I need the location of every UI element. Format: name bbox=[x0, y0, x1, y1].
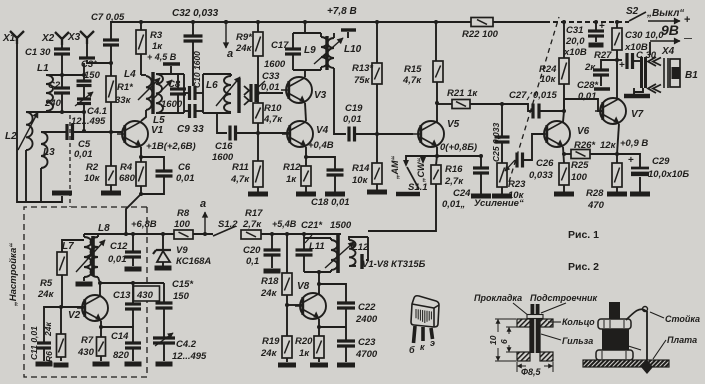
svg-text:L10: L10 bbox=[344, 44, 362, 55]
svg-text:6: 6 bbox=[499, 339, 509, 344]
svg-text:150: 150 bbox=[84, 70, 101, 81]
ground R28 bbox=[607, 192, 627, 197]
svg-text:Рис. 1: Рис. 1 bbox=[568, 229, 599, 241]
wire C19 junction to V5 base bbox=[377, 133, 413, 135]
circuit board (plata) hatched bbox=[583, 360, 669, 367]
capacitor C23 4700 bbox=[345, 327, 347, 340]
svg-text:C6: C6 bbox=[178, 162, 191, 173]
svg-text:10: 10 bbox=[488, 335, 498, 345]
wire V6 collector bbox=[563, 111, 564, 122]
wire L10 to C19 bbox=[334, 68, 346, 134]
transistor KT315 package drawing bbox=[411, 296, 439, 327]
svg-text:4,7к: 4,7к bbox=[230, 174, 250, 185]
arrow battery plus 9V bbox=[648, 18, 680, 24]
svg-text:1600: 1600 bbox=[264, 59, 286, 70]
svg-text:1500: 1500 bbox=[330, 220, 352, 231]
svg-text:R25: R25 bbox=[571, 160, 589, 171]
svg-text:V9: V9 bbox=[176, 245, 188, 256]
ground C18 bbox=[325, 192, 345, 197]
resistor R13* 75k bbox=[376, 22, 378, 63]
wire input tank bottom bbox=[26, 111, 84, 113]
capacitor C24 0,01 Usilenie bbox=[480, 156, 482, 167]
svg-text:Прокладка: Прокладка bbox=[474, 293, 522, 303]
svg-text:0,01„: 0,01„ bbox=[442, 199, 465, 210]
resistor R11 4,7k bbox=[257, 133, 259, 161]
svg-text:a: a bbox=[200, 198, 206, 210]
svg-text:C16: C16 bbox=[215, 141, 233, 152]
svg-text:э: э bbox=[430, 338, 435, 348]
antenna X3 bbox=[80, 31, 94, 44]
dashed board outline Nastroyka block bbox=[24, 207, 147, 377]
solder arrow into coil bbox=[622, 344, 641, 350]
capacitor C12 0,01 rail bypass bbox=[132, 234, 134, 251]
capacitor C31 20,0x10V bbox=[595, 22, 597, 30]
svg-text:х10В: х10В bbox=[563, 47, 587, 58]
coil bottom flange bbox=[596, 350, 633, 360]
svg-text:X1.: X1. bbox=[2, 33, 18, 44]
resistor R19 24k bbox=[286, 305, 288, 336]
wire dashed supply bus to S2 bbox=[545, 21, 629, 23]
solder blob under stand bbox=[641, 360, 653, 374]
svg-text:150: 150 bbox=[173, 291, 190, 302]
svg-text:С18 0,01: С18 0,01 bbox=[311, 197, 350, 208]
resistor R17 2,7k bbox=[241, 230, 261, 239]
wire V2 base bbox=[61, 306, 84, 308]
wire V1 emitter to R4 bbox=[140, 147, 142, 162]
svg-text:0,015: 0,015 bbox=[533, 90, 557, 101]
svg-text:V4: V4 bbox=[316, 125, 329, 136]
resistor R26* 12k feedback bbox=[571, 150, 590, 159]
svg-text:0,01: 0,01 bbox=[261, 82, 280, 93]
transformer L8 left winding bbox=[84, 237, 92, 277]
ground R11 bbox=[248, 192, 268, 197]
svg-text:2,7к: 2,7к bbox=[242, 219, 262, 230]
trimmer core T-bar above tank 1 bbox=[163, 62, 180, 65]
wire C33-V3 base bbox=[258, 92, 283, 94]
svg-text:C22: C22 bbox=[358, 302, 376, 313]
node L11 bottom junction bbox=[317, 270, 321, 274]
svg-text:100: 100 bbox=[174, 219, 191, 230]
svg-text:С31: С31 bbox=[566, 25, 583, 36]
svg-text:S2: S2 bbox=[626, 6, 639, 17]
svg-text:R11: R11 bbox=[232, 162, 249, 173]
svg-text:L7: L7 bbox=[62, 241, 74, 252]
wire C1 to input tank top bbox=[61, 54, 63, 75]
svg-text:R5: R5 bbox=[40, 278, 53, 289]
svg-text:X2: X2 bbox=[41, 33, 55, 44]
svg-text:L1: L1 bbox=[37, 63, 49, 74]
svg-text:2,7к: 2,7к bbox=[444, 176, 464, 187]
gasket washer bbox=[527, 315, 543, 319]
svg-text:C2: C2 bbox=[48, 80, 61, 91]
core bar L6 bbox=[237, 78, 240, 113]
svg-text:В1: В1 bbox=[685, 70, 698, 81]
switch S1.2 bbox=[213, 226, 236, 236]
capacitor C33 0,01 to V3 base bbox=[251, 84, 256, 102]
svg-text:C27: C27 bbox=[509, 90, 527, 101]
svg-text:+5,4В: +5,4В bbox=[272, 219, 297, 229]
svg-text:V1-V8 КТ315Б: V1-V8 КТ315Б bbox=[362, 259, 426, 270]
gimmick coupling chevrons bbox=[244, 86, 249, 105]
arrow battery minus bbox=[649, 42, 651, 48]
capacitor C16 1600 bbox=[217, 113, 227, 133]
svg-text:0,01: 0,01 bbox=[108, 254, 127, 265]
svg-text:V8: V8 bbox=[297, 281, 310, 292]
core bar L7/L8 bbox=[91, 236, 95, 276]
node rail junctions bbox=[124, 232, 128, 236]
node tank top/bottom junctions bbox=[60, 73, 64, 77]
svg-text:C13: C13 bbox=[113, 290, 131, 301]
signal arrow a from bus bbox=[224, 20, 228, 24]
svg-text:24к: 24к bbox=[43, 322, 53, 337]
stand (stoyka) wire bbox=[646, 311, 648, 361]
ground R19 bbox=[278, 363, 296, 368]
antenna X2 bbox=[55, 32, 69, 45]
svg-text:Стойка: Стойка bbox=[665, 314, 700, 324]
wire R21 node to C27 bbox=[502, 104, 532, 111]
tuning arrow across L6 bbox=[216, 77, 240, 106]
svg-text:+0,9 В: +0,9 В bbox=[620, 138, 648, 149]
svg-text:10к: 10к bbox=[352, 175, 369, 186]
dimension 10 bbox=[495, 318, 516, 320]
node V2 collector to tank bbox=[98, 281, 102, 285]
svg-text:R18: R18 bbox=[261, 276, 279, 287]
svg-text:Гильза: Гильза bbox=[562, 336, 593, 346]
wire jack bottom to ground bbox=[634, 88, 643, 92]
variable capacitor C4.2 12...495 bbox=[153, 338, 175, 343]
svg-text:КС168А: КС168А bbox=[176, 256, 211, 267]
ground C28 bbox=[594, 87, 610, 91]
capacitor C9 33 bottom coupling bbox=[190, 104, 196, 118]
ground R12 bbox=[296, 192, 316, 197]
wire +7,8V top supply bus bbox=[110, 21, 545, 23]
node rail junctions right bbox=[270, 232, 274, 236]
svg-text:0,033: 0,033 bbox=[529, 170, 553, 181]
svg-text:C32 0,033: C32 0,033 bbox=[172, 8, 219, 19]
svg-text:L5: L5 bbox=[153, 115, 165, 126]
svg-text:4,7к: 4,7к bbox=[402, 75, 422, 86]
coil top flange bbox=[598, 319, 631, 329]
svg-text:L4: L4 bbox=[124, 69, 136, 80]
svg-text:R8: R8 bbox=[177, 208, 190, 219]
svg-text:12к: 12к bbox=[600, 140, 617, 151]
svg-text:C9 33: C9 33 bbox=[177, 124, 204, 135]
svg-text:C26: C26 bbox=[536, 158, 554, 169]
node a junction on rail bbox=[203, 232, 207, 236]
svg-text:Плата: Плата bbox=[667, 335, 697, 345]
svg-text:0(+0,8Б): 0(+0,8Б) bbox=[440, 142, 477, 153]
svg-text:Ф8,5: Ф8,5 bbox=[521, 367, 542, 377]
svg-text:L2: L2 bbox=[5, 131, 17, 142]
capacitor C6 0,01 emitter bypass bbox=[141, 157, 164, 170]
wire X3 stub with bar bbox=[86, 43, 88, 57]
node V8 base bbox=[285, 303, 289, 307]
svg-text:„CW“: „CW“ bbox=[416, 158, 426, 183]
svg-text:9В: 9В bbox=[661, 22, 679, 38]
svg-text:+1В(+2,6В): +1В(+2,6В) bbox=[146, 141, 196, 152]
ground R2 bbox=[101, 191, 121, 196]
wire V5 collector bbox=[436, 103, 438, 122]
svg-text:20,0: 20,0 bbox=[565, 36, 585, 47]
wire V6 collector to V7 base bbox=[564, 99, 602, 111]
ground input circuit bbox=[52, 191, 72, 196]
wire jack to minus arrow bbox=[649, 48, 651, 55]
wire V7 emitter bbox=[617, 124, 619, 154]
resistor R2 10k bbox=[110, 132, 112, 166]
capacitor C29 10,0x10V bbox=[617, 154, 640, 167]
svg-text:C30 10,0: C30 10,0 bbox=[625, 30, 664, 41]
svg-text:L6: L6 bbox=[206, 80, 218, 91]
svg-text:0,01: 0,01 bbox=[74, 149, 93, 160]
tuning arrow across L5 bbox=[152, 80, 172, 100]
transistor V3 bbox=[281, 77, 312, 103]
wire C33 to V3 base bbox=[256, 92, 281, 94]
ground R7 bbox=[93, 362, 110, 367]
resistor R16 2,7k bbox=[436, 156, 437, 165]
node bus junctions bbox=[139, 20, 143, 24]
svg-text:С33: С33 bbox=[262, 71, 280, 82]
svg-text:R17: R17 bbox=[245, 208, 263, 219]
svg-text:1600: 1600 bbox=[161, 99, 183, 110]
svg-text:0,01: 0,01 bbox=[176, 173, 195, 184]
node V7 collector node bbox=[615, 58, 619, 62]
node V7 emitter junction bbox=[615, 152, 619, 156]
svg-text:10,0х10Б: 10,0х10Б bbox=[648, 169, 689, 180]
dimension 6 bbox=[506, 326, 528, 328]
resistor R18 24k bbox=[286, 234, 288, 273]
wire tank bottom node bbox=[100, 282, 164, 284]
earphone B1 bbox=[664, 58, 668, 88]
svg-text:R7: R7 bbox=[81, 335, 94, 346]
svg-text:С10 1600: С10 1600 bbox=[192, 51, 202, 88]
svg-text:X4: X4 bbox=[661, 46, 675, 57]
coil winding body (black) bbox=[602, 329, 629, 352]
node R13/R14/C19 junction bbox=[375, 132, 379, 136]
ground V9 bbox=[155, 266, 172, 271]
wire V8 collector to tank bbox=[318, 272, 320, 294]
wire L8 top to rail bbox=[98, 234, 126, 237]
svg-text:L9: L9 bbox=[304, 45, 316, 56]
resistor R22 100 bbox=[471, 18, 493, 27]
wire V6 emitter to R25 bbox=[563, 147, 564, 163]
svg-text:2400: 2400 bbox=[355, 314, 378, 325]
node V2 emitter junction bbox=[99, 325, 103, 329]
node V1 base junction bbox=[109, 130, 113, 134]
wire emitter to C22/C23 node bbox=[319, 326, 346, 328]
ground R25 bbox=[554, 192, 574, 197]
ground C11 bbox=[36, 362, 53, 367]
wire V8 emitter bbox=[318, 319, 320, 327]
transistor V8 bbox=[295, 293, 326, 319]
coil assembly tuning rod bbox=[609, 302, 620, 321]
svg-text:240: 240 bbox=[44, 98, 62, 109]
svg-text:+7,8 В: +7,8 В bbox=[327, 6, 357, 17]
resistor R7 430 bbox=[97, 337, 106, 356]
svg-text:V5: V5 bbox=[447, 119, 460, 130]
svg-text:V6: V6 bbox=[577, 126, 590, 137]
wire tank ground bus bbox=[17, 196, 62, 202]
svg-text:R1*: R1* bbox=[117, 82, 134, 93]
tuning arrow across L8 bbox=[76, 240, 105, 272]
svg-text:+6,8В: +6,8В bbox=[131, 219, 157, 230]
wire collector tap to C22 bbox=[319, 284, 346, 302]
ground C29 bbox=[630, 192, 650, 197]
svg-text:„Выкл“: „Выкл“ bbox=[646, 8, 684, 19]
capacitor C2 240 bbox=[54, 88, 70, 93]
svg-text:12...495: 12...495 bbox=[71, 116, 106, 127]
capacitor C5 0,01 coupling to V1 base bbox=[41, 131, 67, 133]
svg-text:L11: L11 bbox=[309, 241, 325, 252]
ground X4 bbox=[633, 88, 635, 94]
transistor V7 bbox=[595, 98, 626, 124]
svg-text:1к: 1к bbox=[152, 41, 163, 52]
capacitor C1 30 bbox=[61, 44, 63, 48]
lead-out wire curl to stand bbox=[626, 309, 646, 320]
svg-text:33к: 33к bbox=[115, 95, 132, 106]
svg-text:V1: V1 bbox=[151, 125, 164, 136]
svg-text:R15: R15 bbox=[404, 64, 422, 75]
wire input tank top bbox=[46, 74, 84, 76]
svg-text:C23: C23 bbox=[358, 337, 376, 348]
svg-text:430: 430 bbox=[77, 347, 95, 358]
svg-text:R23: R23 bbox=[508, 179, 526, 190]
svg-text:б: б bbox=[409, 345, 415, 355]
svg-text:С29: С29 bbox=[652, 156, 670, 167]
wire L8 bottom to V2 collector bbox=[98, 277, 100, 283]
svg-text:к: к bbox=[420, 342, 425, 352]
node V8 collector tap bbox=[317, 282, 321, 286]
resistor R27 2k bbox=[616, 22, 618, 28]
svg-text:0,01: 0,01 bbox=[578, 91, 597, 102]
svg-text:1600: 1600 bbox=[212, 152, 234, 163]
resistor R8 100 bbox=[174, 230, 193, 239]
svg-text:R3: R3 bbox=[150, 30, 163, 41]
resistor R10 4,7k bbox=[257, 93, 259, 103]
svg-text:С21*: С21* bbox=[301, 220, 323, 231]
svg-text:R10: R10 bbox=[264, 103, 282, 114]
ground R20 bbox=[310, 363, 328, 368]
coil former hatched bottom flange bbox=[517, 352, 530, 361]
wire R23 wiper to C26 bbox=[523, 134, 545, 160]
wire collector node down to V7 bbox=[616, 60, 618, 99]
svg-text:R14: R14 bbox=[352, 163, 370, 174]
ground C31 bbox=[589, 43, 604, 48]
tuning arrow across L11/L12 with T-bar bbox=[325, 242, 354, 268]
capacitor C20 0,1 bbox=[271, 234, 273, 249]
svg-text:12...495: 12...495 bbox=[172, 351, 207, 362]
svg-text:10к: 10к bbox=[540, 74, 557, 85]
svg-text:C14: C14 bbox=[111, 331, 129, 342]
svg-text:L8: L8 bbox=[98, 223, 110, 234]
svg-text:430: 430 bbox=[136, 290, 154, 301]
svg-text:R4: R4 bbox=[120, 162, 133, 173]
svg-text:C1 30: C1 30 bbox=[25, 47, 51, 58]
resistor R12 1k bbox=[301, 166, 311, 186]
wire V2 collector bbox=[99, 283, 101, 296]
svg-text:C12: C12 bbox=[110, 241, 128, 252]
ground C23 bbox=[337, 363, 355, 368]
svg-text:C7 0,05: C7 0,05 bbox=[91, 12, 125, 23]
svg-text:680: 680 bbox=[119, 173, 136, 184]
resistor R20 1k bbox=[318, 327, 320, 336]
node V8 emitter junction bbox=[317, 325, 321, 329]
svg-text:R12: R12 bbox=[283, 162, 301, 173]
ground C20 bbox=[264, 269, 281, 274]
svg-text:+ 4,5 В: + 4,5 В bbox=[147, 52, 177, 62]
node V1 emitter bottom bbox=[139, 192, 143, 196]
svg-text:С4.2: С4.2 bbox=[176, 339, 197, 350]
capacitor C26 0,033 AF coupling bbox=[517, 153, 523, 168]
ground C14 bbox=[125, 362, 142, 367]
wire tank top to bus bbox=[304, 22, 306, 33]
potentiometer R23 10k volume bbox=[497, 163, 507, 187]
svg-text:+: + bbox=[684, 14, 690, 26]
resistor R28 470 bbox=[616, 154, 618, 163]
ground L8 left winding bbox=[83, 277, 85, 281]
resistor R9* 24k bbox=[257, 22, 259, 32]
wire V8 base bbox=[287, 304, 302, 306]
capacitor C22 2400 bbox=[337, 303, 355, 308]
svg-text:1к: 1к bbox=[299, 348, 310, 359]
variable capacitor C4.1 12...495 bbox=[83, 86, 85, 98]
capacitor C19 0,01 bbox=[349, 127, 355, 142]
svg-text:820: 820 bbox=[113, 350, 130, 361]
transistor V2 bbox=[77, 295, 108, 321]
ground C12 bbox=[125, 267, 142, 272]
svg-text:24к: 24к bbox=[37, 289, 55, 300]
svg-text:R2: R2 bbox=[86, 162, 99, 173]
node V2 base bbox=[59, 305, 63, 309]
zener diode V9 KC168A bbox=[162, 234, 164, 250]
svg-text:Подстроечник: Подстроечник bbox=[530, 293, 597, 303]
node R21 tap on V5 collector bbox=[435, 101, 439, 105]
dashed tuning gang link C4.1-C4.2 bbox=[69, 115, 71, 207]
node V6 collector junction bbox=[562, 109, 566, 113]
resistor R25 100 bbox=[559, 163, 569, 185]
wire V4 emitter to R12 bbox=[305, 147, 307, 166]
svg-text:4,7к: 4,7к bbox=[263, 114, 283, 125]
dashed board edge diagonal bbox=[509, 17, 559, 182]
core bars L9/L10 bbox=[325, 36, 328, 70]
svg-text:V2: V2 bbox=[68, 310, 81, 321]
node V3 base bbox=[256, 91, 260, 95]
svg-text:24к: 24к bbox=[235, 43, 253, 54]
svg-text:10к: 10к bbox=[84, 173, 101, 184]
wire X1 down-lead bbox=[17, 43, 62, 202]
svg-text:Рис. 2: Рис. 2 bbox=[568, 261, 599, 273]
svg-text:R16: R16 bbox=[445, 164, 463, 175]
resistor R4 680 bbox=[136, 162, 146, 186]
coil former hatched top flange bbox=[517, 319, 530, 327]
resistor R14 10k bbox=[376, 134, 378, 163]
svg-text:10к: 10к bbox=[508, 190, 525, 201]
ground R14 bbox=[367, 190, 387, 195]
transistor V6 bbox=[539, 121, 570, 147]
wire +6,8V oscillator rail bbox=[84, 233, 174, 235]
ground C4.2 bbox=[156, 362, 173, 367]
core bar L4/L5 bbox=[151, 72, 154, 114]
resistor R1* 33k bbox=[109, 61, 113, 65]
svg-text:0,01: 0,01 bbox=[343, 114, 362, 125]
signal arrow a to rail bbox=[202, 212, 207, 234]
svg-text:X3: X3 bbox=[67, 32, 81, 43]
wire R16 to +5,4V rail bbox=[368, 184, 436, 231]
svg-text:+0,4В: +0,4В bbox=[308, 140, 334, 151]
svg-text:R20: R20 bbox=[295, 336, 313, 347]
ground C24/R23 bbox=[471, 194, 491, 199]
svg-text:0,1: 0,1 bbox=[246, 256, 259, 267]
transistor V4 bbox=[282, 121, 313, 147]
